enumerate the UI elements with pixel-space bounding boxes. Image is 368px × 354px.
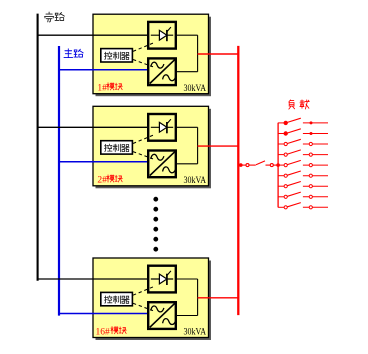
controller box, module 16# bbox=[101, 292, 133, 305]
load feeder switch bbox=[278, 203, 328, 209]
dashed control line to inverter, module 16# bbox=[133, 303, 153, 310]
thyristor symbol, module 2# bbox=[151, 119, 173, 133]
dashed control line to inverter, module 1# bbox=[133, 60, 153, 67]
wire: inverter output, module 1# bbox=[176, 71, 198, 73]
rectifier (thyristor) box, module 1# bbox=[148, 22, 176, 49]
main bus (blue vertical) bbox=[58, 46, 60, 316]
wire: main branch to inverter of module 16# bbox=[58, 313, 148, 315]
controller label 控制器, module 1# bbox=[104, 52, 112, 59]
load feeder switch bbox=[278, 139, 328, 145]
node: junction dot on output bus bbox=[239, 163, 243, 167]
controller label 控制器, module 2# bbox=[104, 144, 112, 151]
wire: output join vertical, module 2# bbox=[197, 127, 199, 164]
rectifier (thyristor) box, module 16# bbox=[148, 266, 176, 293]
load feeder switch bbox=[278, 118, 328, 124]
wire: bypass branch to rectifier of module 16# bbox=[37, 278, 148, 280]
svg-text:1#: 1# bbox=[97, 84, 107, 94]
load feeder switch bbox=[278, 192, 328, 198]
wire: rectifier output, module 16# bbox=[176, 278, 198, 280]
inverter box, module 16# bbox=[148, 302, 176, 329]
dashed control line to rectifier, module 2# bbox=[133, 135, 155, 144]
load feeder switch bbox=[278, 150, 328, 156]
svg-text:30kVA: 30kVA bbox=[184, 175, 207, 186]
wire: output join vertical, module 16# bbox=[197, 279, 199, 316]
ellipsis dots between modules bbox=[153, 197, 158, 202]
dashed control line to rectifier, module 1# bbox=[133, 43, 155, 52]
wire + isolator switch from bus to load bus bbox=[239, 161, 277, 167]
inverter symbol, module 1# bbox=[150, 59, 176, 83]
load feeder switch bbox=[278, 182, 328, 188]
thyristor symbol, module 16# bbox=[151, 271, 173, 285]
wire: output join vertical, module 1# bbox=[197, 35, 199, 71]
controller box, module 2# bbox=[101, 141, 133, 154]
wire: main branch to inverter of module 2# bbox=[58, 161, 148, 163]
thyristor symbol, module 1# bbox=[151, 27, 173, 41]
wire: inverter output, module 2# bbox=[176, 163, 198, 165]
module 2# box bbox=[93, 106, 209, 186]
wire: red output feed to bus, module 1# bbox=[198, 53, 239, 55]
label 旁路 bbox=[45, 12, 54, 22]
svg-text:16#: 16# bbox=[96, 327, 111, 337]
svg-text:2#: 2# bbox=[97, 176, 107, 186]
inverter box, module 1# bbox=[148, 58, 176, 85]
module 16# shadow bbox=[96, 261, 212, 341]
rectifier (thyristor) box, module 2# bbox=[148, 114, 176, 141]
dashed control line to rectifier, module 16# bbox=[133, 286, 155, 295]
red output bus bbox=[237, 46, 239, 315]
load feeder switch bbox=[278, 160, 328, 166]
wire: bypass branch to rectifier of module 1# bbox=[37, 34, 148, 36]
module 16# box bbox=[93, 258, 209, 338]
bypass bus (black vertical) bbox=[37, 14, 39, 281]
wire: main branch to inverter of module 1# bbox=[58, 69, 148, 71]
load feeder switch bbox=[278, 171, 328, 177]
inverter symbol, module 2# bbox=[150, 151, 176, 175]
module 2# shadow bbox=[96, 109, 212, 189]
svg-text:30kVA: 30kVA bbox=[184, 327, 207, 338]
controller label 控制器, module 16# bbox=[104, 296, 112, 303]
controller box, module 1# bbox=[101, 49, 133, 62]
inverter symbol, module 16# bbox=[150, 303, 176, 327]
wire: rectifier output, module 1# bbox=[176, 34, 198, 36]
svg-text:30kVA: 30kVA bbox=[184, 83, 207, 94]
node: junction dot on load bus bbox=[276, 163, 280, 167]
wire: red output feed to bus, module 2# bbox=[198, 145, 239, 147]
wire: red output feed to bus, module 16# bbox=[198, 297, 239, 299]
module 1# shadow bbox=[96, 17, 212, 97]
module 1# box bbox=[93, 14, 209, 94]
wire: inverter output, module 16# bbox=[176, 315, 198, 317]
label 负载 bbox=[289, 100, 295, 109]
load feeder switch bbox=[278, 129, 328, 135]
load distribution bus (red vertical) bbox=[277, 123, 279, 207]
dashed control line to inverter, module 2# bbox=[133, 152, 153, 159]
inverter box, module 2# bbox=[148, 151, 176, 178]
label 主路 bbox=[64, 49, 73, 58]
wire: rectifier output, module 2# bbox=[176, 126, 198, 128]
wire: bypass branch to rectifier of module 2# bbox=[37, 126, 148, 128]
